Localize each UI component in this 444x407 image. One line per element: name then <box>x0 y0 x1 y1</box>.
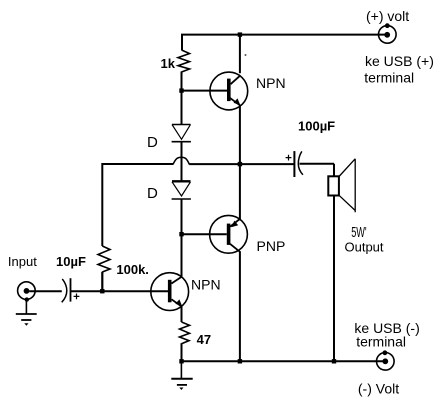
wire top rail V+ <box>182 35 387 50</box>
node junction rail speaker <box>332 359 336 363</box>
svg-text:100µF: 100µF <box>298 119 335 134</box>
connector J3 V- terminal <box>377 350 395 370</box>
node junction top rail <box>238 32 242 36</box>
svg-text:PNP: PNP <box>257 238 286 254</box>
svg-text:10µF: 10µF <box>56 254 86 269</box>
wire emitter Q1 down to output node <box>239 105 241 164</box>
wire speaker down to rail <box>333 196 335 362</box>
wire C1 to base Q3 <box>71 290 169 292</box>
svg-text:(+) volt: (+) volt <box>366 8 409 24</box>
capacitor C1 10uF <box>62 278 80 302</box>
node junction output <box>238 162 242 166</box>
connector J2 V+ terminal <box>379 23 397 43</box>
wire collector Q2 down to rail <box>239 252 241 361</box>
node junction rail left <box>179 359 183 363</box>
node junction PNP base <box>179 232 183 236</box>
svg-text:47: 47 <box>197 332 211 347</box>
wire base Q2 PNP <box>182 233 227 235</box>
wire emitter Q2 up <box>239 164 241 219</box>
stray dot <box>245 54 247 56</box>
wire base Q1 <box>182 90 227 92</box>
wire cap to speaker <box>300 164 335 177</box>
diode D1 <box>172 125 191 142</box>
diode D2 <box>172 181 191 199</box>
capacitor C2 100uF <box>286 151 303 177</box>
wire input jack to C1 <box>29 290 62 292</box>
wire diode chain lower to Q3 collector <box>181 199 183 277</box>
svg-text:D: D <box>147 134 158 151</box>
svg-text:100k.: 100k. <box>116 262 149 277</box>
wire diode chain upper <box>181 91 183 125</box>
resistor R3 47 <box>180 322 190 361</box>
resistor R2 100k <box>98 246 110 291</box>
transistor Q2 PNP <box>210 215 248 253</box>
svg-text:(-) Volt: (-) Volt <box>358 381 399 397</box>
svg-text:1k: 1k <box>161 56 176 71</box>
connector J1 input jack <box>18 282 36 302</box>
transistor Q3 NPN bottom <box>151 273 189 311</box>
node junction base Q3 <box>100 289 104 293</box>
wire emitter Q3 to R3 <box>181 306 183 322</box>
svg-text:NPN: NPN <box>191 277 221 293</box>
node junction rail mid <box>238 359 242 363</box>
ground input jack <box>16 300 37 326</box>
svg-text:NPN: NPN <box>256 75 286 91</box>
wire between diodes through crossover <box>181 142 183 182</box>
svg-text:terminal: terminal <box>364 70 414 86</box>
svg-text:ke USB (+): ke USB (+) <box>365 53 434 69</box>
transistor Q1 NPN top <box>210 72 248 110</box>
wire feedback node horizontal with hop <box>102 157 294 246</box>
wire collector Q1 up <box>239 35 241 74</box>
node junction base of Q1 <box>179 88 183 92</box>
speaker LS1 <box>328 159 355 212</box>
svg-text:Output: Output <box>345 239 384 254</box>
svg-text:D: D <box>147 185 158 202</box>
resistor R1 1k <box>178 50 190 91</box>
wire bottom rail <box>180 360 385 362</box>
svg-text:Input: Input <box>8 254 37 269</box>
svg-text:terminal: terminal <box>356 333 406 349</box>
ground main <box>171 361 192 390</box>
